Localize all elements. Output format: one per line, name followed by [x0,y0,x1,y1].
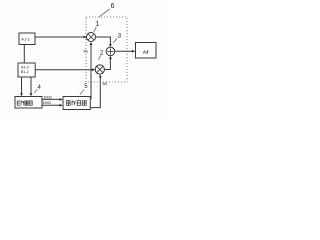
DM2 wire [42,104,60,106]
svg-text:DM2: DM2 [43,100,52,105]
wire multiplier1 to adder [96,37,111,45]
weight W1 wire up to multiplier 1 [89,45,92,99]
multiplier 1 [87,33,96,42]
label 4 [34,85,41,93]
weight decision block 5 [63,97,90,110]
svg-text:DM1: DM1 [44,94,53,99]
label 5 [80,84,88,95]
wire box1 to box2 [23,45,25,64]
svg-text:A1-1: A1-1 [21,37,30,42]
adder 3 [106,47,115,56]
wire multiplier2 to adder [104,59,110,70]
svg-text:W1: W1 [83,49,88,53]
weight W2 wire up to multiplier 2 [90,78,100,108]
label 1 [94,21,100,32]
label 6 [99,3,114,17]
dashed combiner block 6 [86,17,127,82]
wire box2 to multiplier 2 [35,69,93,71]
DM decision block [15,97,42,109]
svg-text:A1-2: A1-2 [21,65,29,69]
label 3 [113,33,122,44]
block A1-1 [19,33,35,45]
DM1 wire [42,98,60,100]
wire box2 down to DM block (left) [21,77,23,94]
block A1-2 / B1-2 [18,63,35,77]
output block A3 [136,43,157,59]
svg-text:1: 1 [95,21,99,28]
svg-text:B1-2: B1-2 [21,70,29,74]
wire adder to output block [115,50,133,52]
multiplier 2 [95,65,104,74]
wire box2 down to DM block (right) [30,77,32,94]
svg-text:W2: W2 [102,82,107,86]
wire box1 to multiplier 1 [35,36,85,38]
svg-text:3: 3 [118,33,122,40]
svg-text:A3: A3 [143,49,149,54]
svg-text:6: 6 [111,3,115,10]
label 2 [99,50,105,59]
